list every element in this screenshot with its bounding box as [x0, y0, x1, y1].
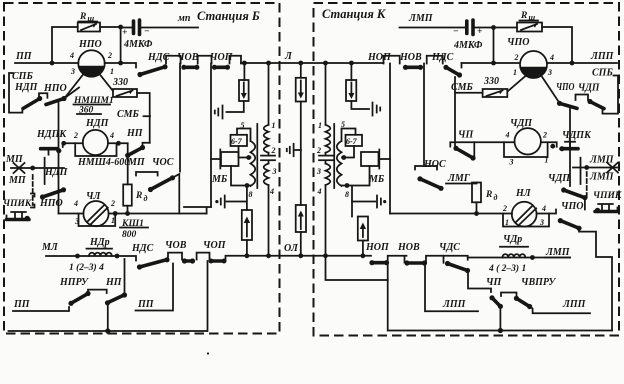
contact ChP bottom movable — [489, 295, 503, 309]
svg-text:НДП: НДП — [14, 82, 39, 93]
node mid arrester — [298, 61, 303, 66]
wire LMP to cap — [400, 27, 466, 29]
contact NDP movable — [23, 96, 42, 109]
wire ChDP lower to rack — [584, 198, 586, 210]
svg-text:1: 1 — [110, 67, 114, 76]
wire contact group down right — [569, 108, 571, 148]
svg-text:ЧВПРУ: ЧВПРУ — [521, 277, 556, 288]
svg-text:4: 4 — [69, 51, 74, 60]
arrester mid top — [296, 78, 306, 102]
svg-text:2: 2 — [316, 146, 321, 155]
svg-text:6-7: 6-7 — [231, 137, 243, 146]
svg-text:2: 2 — [514, 53, 519, 62]
svg-text:330: 330 — [112, 77, 128, 88]
relay ChDP coil — [515, 128, 541, 154]
wire MP with cross — [11, 163, 64, 173]
node MP wire — [30, 166, 35, 171]
svg-text:ЧОП: ЧОП — [203, 240, 227, 251]
svg-text:2: 2 — [110, 199, 115, 208]
svg-text:1: 1 — [272, 121, 276, 130]
wire NOS drop — [423, 64, 425, 167]
svg-text:ЧДП: ЧДП — [578, 83, 601, 94]
svg-text:ЧПИК: ЧПИК — [3, 199, 32, 209]
svg-text:НМШ4-600: НМШ4-600 — [77, 157, 129, 168]
node Rd rack — [125, 211, 130, 216]
contact ChPO rack movable — [558, 218, 582, 231]
tap 5 K wire — [342, 129, 356, 142]
contact NOP bar — [369, 260, 389, 265]
svg-text:2: 2 — [73, 131, 78, 140]
transformer K line winding — [326, 63, 331, 256]
svg-text:ЛМП: ЛМП — [545, 247, 571, 258]
box 6-7 — [231, 135, 248, 146]
svg-text:НДПК: НДПК — [36, 129, 67, 140]
label LMP terminal — [545, 247, 571, 258]
wire bus right of relay — [105, 63, 136, 68]
wire ChOS to rack — [173, 174, 180, 214]
wire LMP with cross — [573, 163, 619, 173]
svg-text:800: 800 — [122, 230, 137, 240]
wire ground to bottom arrester — [227, 186, 247, 211]
svg-text:3: 3 — [70, 67, 75, 76]
node 6-7 K tap — [341, 155, 346, 160]
svg-text:R: R — [520, 11, 527, 21]
box 6-7 K — [346, 135, 363, 146]
contact ChDP fixed bracket — [576, 95, 589, 101]
wire MB K to winding bottom — [342, 166, 370, 217]
label LMG terminal — [446, 173, 472, 184]
contact ChOP bottom bar — [209, 259, 227, 264]
node NDr right — [115, 254, 120, 259]
relay ChL coil — [83, 201, 108, 226]
terminal SMB tick — [144, 115, 151, 117]
wire PP1 — [13, 307, 69, 311]
inductor ChDr — [500, 247, 528, 258]
wire ChPO out to bus — [579, 228, 612, 330]
svg-text:2: 2 — [271, 146, 276, 155]
leg NPO to 330 — [100, 74, 114, 91]
node NDPK — [61, 141, 66, 146]
svg-text:НОВ: НОВ — [397, 242, 420, 253]
svg-text:4: 4 — [541, 204, 546, 213]
svg-text:ЧДП: ЧДП — [510, 118, 533, 129]
svg-text:1 (2–3) 4: 1 (2–3) 4 — [69, 262, 104, 273]
node 6-7 tap — [246, 155, 251, 160]
svg-text:8: 8 — [249, 190, 253, 199]
wire NP to Rd — [127, 143, 129, 184]
rack ChDP right — [541, 142, 557, 147]
label Rd K — [485, 190, 498, 202]
wire ChP to bus — [499, 306, 501, 330]
contact ChDS movable — [445, 261, 470, 273]
wire OL — [226, 256, 372, 261]
ground B top — [215, 106, 223, 119]
node NDP pin4 — [116, 141, 121, 146]
contact ChOP bar — [212, 65, 230, 70]
frame NDP — [75, 143, 116, 156]
wire ML — [46, 256, 136, 261]
leg NPO to contact — [65, 74, 84, 98]
svg-text:ЧП: ЧП — [486, 277, 502, 288]
battery MB K — [361, 152, 379, 166]
svg-text:ЧПО: ЧПО — [561, 201, 583, 212]
contact ChOP bottom step — [197, 253, 210, 260]
svg-text:НЛ: НЛ — [515, 188, 532, 199]
svg-text:3: 3 — [316, 167, 321, 176]
transformer K core — [333, 124, 335, 188]
relay NL coil — [512, 202, 537, 227]
contact ChDP lower movable — [561, 187, 587, 200]
svg-text:R: R — [485, 190, 492, 200]
ground mid — [287, 144, 301, 156]
contact ChOP fixed step — [230, 56, 242, 64]
svg-text:4МКФ: 4МКФ — [453, 40, 483, 51]
node R-shunt tap — [50, 61, 55, 66]
rack NDP right — [108, 142, 128, 144]
node OL mid — [298, 253, 303, 258]
svg-text:ПП: ПП — [15, 51, 33, 62]
wire ChDPK down — [569, 149, 571, 186]
svg-text:ЧОС: ЧОС — [152, 157, 174, 168]
transformer B core — [256, 124, 258, 188]
wire MB K link — [379, 158, 390, 160]
node bus ChP — [498, 328, 503, 333]
contact ChOS movable — [148, 175, 175, 192]
rack right end riser — [184, 207, 211, 214]
svg-text:ОЛ: ОЛ — [284, 243, 299, 254]
contact NDS movable — [137, 64, 167, 77]
node winding K bottom — [345, 183, 350, 188]
wire chain drop to NL rack — [389, 64, 391, 214]
svg-text:НПО: НПО — [43, 83, 67, 94]
node bus NP — [105, 328, 110, 333]
svg-text:МБ: МБ — [368, 174, 385, 185]
resistor Rd K — [472, 183, 481, 203]
svg-text:4: 4 — [269, 187, 274, 196]
wire LMG to Rd — [472, 183, 477, 184]
tap 5 wire — [237, 129, 251, 142]
svg-text:ЛПП: ЛПП — [442, 299, 467, 310]
relay NPO polarized — [78, 50, 104, 76]
svg-text:ЧОВ: ЧОВ — [165, 240, 187, 251]
rack ChL — [59, 213, 207, 215]
wire mid to OL — [300, 232, 302, 256]
wire NDr to NP contact — [124, 259, 126, 295]
contact NDS bottom movable — [137, 257, 170, 269]
svg-text:СМБ: СМБ — [117, 109, 140, 120]
node OL transformer B — [266, 253, 271, 258]
svg-text:2: 2 — [502, 204, 507, 213]
frame ChDP — [504, 142, 548, 157]
relay ChL type label — [120, 219, 148, 240]
svg-text:4 ( 2–3) 1: 4 ( 2–3) 1 — [488, 263, 526, 274]
svg-text:ЧПО: ЧПО — [507, 37, 529, 48]
transformer K local winding — [337, 141, 342, 186]
frame NL — [503, 214, 549, 227]
contact NDS fixed step — [166, 56, 181, 64]
wire ChDr feed — [468, 257, 570, 259]
wire MB to winding bottom — [231, 166, 251, 186]
svg-text:4: 4 — [317, 187, 322, 196]
relay ChPO polarized — [520, 51, 547, 78]
contact NOV fixed step — [426, 256, 444, 263]
node transformer K line — [323, 61, 328, 66]
wire ChDS down — [468, 271, 492, 293]
contact NOS bracket — [415, 166, 437, 170]
resistor Rd — [123, 184, 132, 205]
jack ChPIK right — [595, 204, 618, 213]
resistor Rsh K — [517, 23, 542, 32]
wire Rd K to rack — [476, 202, 478, 213]
wire to Rsh — [52, 27, 78, 63]
svg-text:3: 3 — [272, 167, 277, 176]
contact ChOV bottom bar — [182, 258, 195, 263]
arrester B top — [239, 80, 249, 101]
svg-text:2: 2 — [107, 51, 112, 60]
svg-text:1: 1 — [513, 68, 517, 77]
node OL left arrester — [245, 253, 250, 258]
contact NOP fixed step — [384, 56, 400, 64]
svg-text:ЧП: ЧП — [458, 130, 474, 141]
contact NOV fixed step — [427, 56, 443, 64]
node OL right arrester — [361, 253, 366, 258]
rack ChDP left — [450, 142, 514, 146]
node right arrester — [349, 61, 354, 66]
wire ChDS step up — [444, 256, 468, 260]
svg-text:НП: НП — [105, 277, 123, 288]
svg-text:4МКФ: 4МКФ — [123, 39, 153, 50]
ground K top — [373, 103, 381, 116]
node winding bottom — [245, 183, 250, 188]
contact ChP movable — [453, 146, 475, 161]
contact ChOV bar — [181, 65, 199, 70]
station K dashed border — [314, 3, 620, 336]
arrester K bottom — [358, 217, 368, 241]
wire bus into ChPO — [462, 62, 521, 64]
relay NDP resistance label — [77, 106, 101, 116]
svg-text:МБ: МБ — [211, 174, 228, 185]
svg-text:ЛПП: ЛПП — [562, 299, 587, 310]
plunger bar ChDPK — [580, 158, 582, 184]
node LPP — [570, 61, 575, 66]
ground B bottom — [215, 196, 224, 208]
svg-text:R: R — [135, 191, 142, 201]
contact ChPO movable — [557, 101, 577, 109]
wire Rsh K to LPP — [542, 27, 572, 63]
svg-text:МП: МП — [8, 175, 27, 186]
bus bottom K — [389, 330, 613, 332]
wire MB drop — [210, 64, 212, 208]
node ChPO bus — [491, 61, 496, 66]
contact NOV bottom bar — [404, 260, 427, 265]
relay NDP coil — [83, 130, 108, 155]
inductor NDr — [87, 249, 113, 256]
speck — [207, 352, 209, 354]
node ChDr right — [530, 255, 535, 260]
svg-text:4: 4 — [549, 53, 554, 62]
svg-text:Станция К: Станция К — [322, 7, 387, 21]
svg-text:4: 4 — [73, 199, 78, 208]
terminal SPB bracket — [9, 73, 22, 113]
wire transformer K to bus — [326, 256, 388, 331]
label Rsh K — [520, 11, 539, 22]
wire NDS K tick — [461, 63, 463, 68]
wire node down ChPO — [493, 28, 495, 64]
svg-text:НПО: НПО — [39, 198, 63, 209]
wire Rsh to cap node — [100, 26, 121, 28]
wire 6-7 K to winding — [342, 146, 354, 158]
svg-text:2: 2 — [542, 131, 547, 140]
resistor 330 K — [483, 89, 508, 97]
arrester mid bottom — [296, 205, 306, 232]
label Rsh — [79, 12, 98, 23]
node cap junction — [118, 25, 123, 30]
station B dashed border — [4, 3, 280, 334]
wire arrester B top — [227, 63, 245, 112]
wire 330 to SMB line — [137, 93, 150, 143]
svg-text:НПО: НПО — [78, 39, 102, 50]
wire NOV drop to LPP mid — [425, 263, 478, 311]
contact ChOV fixed step — [198, 56, 212, 64]
node NDr left — [75, 254, 80, 259]
node Rd K — [474, 211, 479, 216]
svg-text:ЧДПК: ЧДПК — [562, 130, 592, 141]
contact NP upper bracket — [143, 143, 150, 148]
contact NPO lower movable — [40, 187, 66, 199]
svg-text:НОП: НОП — [367, 52, 392, 63]
svg-text:ПП: ПП — [137, 299, 155, 310]
wire ChP to rack — [473, 142, 474, 158]
wire LPP — [547, 62, 617, 64]
svg-text:8: 8 — [345, 190, 349, 199]
svg-text:3: 3 — [509, 158, 514, 167]
wire ChOP to bus — [207, 261, 209, 331]
capacitor 4mkf left — [121, 27, 132, 29]
relay NDP type label — [73, 96, 114, 106]
transformer B local winding — [251, 141, 256, 186]
wire ChOV to PP2 — [136, 264, 174, 311]
svg-text:НОВ: НОВ — [399, 52, 422, 63]
contact NPO movable — [46, 96, 67, 105]
svg-text:СМБ: СМБ — [451, 82, 474, 93]
svg-text:НДП: НДП — [85, 118, 110, 129]
svg-text:НОП: НОП — [365, 242, 390, 253]
contact NP movable — [105, 292, 127, 305]
wire arrester K top — [351, 63, 369, 109]
svg-text:Станция Б: Станция Б — [197, 9, 260, 23]
svg-text:ЛМГ: ЛМГ — [447, 173, 471, 184]
svg-text:Л: Л — [284, 51, 293, 62]
plunger bar NDPK — [44, 158, 46, 184]
wire contact group down to ChL rack — [58, 103, 60, 214]
svg-text:МЛ: МЛ — [41, 242, 59, 253]
svg-text:НДП: НДП — [44, 167, 69, 178]
svg-text:ЧДр: ЧДр — [503, 234, 522, 245]
wire L line to right station — [241, 62, 384, 64]
wire NPO contact to relay leg — [64, 88, 79, 99]
svg-text:ЧДС: ЧДС — [439, 242, 460, 253]
svg-text:ЛМП: ЛМП — [408, 13, 434, 24]
jack ChPIK left — [7, 194, 35, 222]
svg-text:НДС: НДС — [131, 243, 154, 254]
svg-text:3: 3 — [547, 68, 552, 77]
ground K bottom — [377, 196, 386, 208]
node cap K — [491, 25, 496, 30]
transformer B line winding — [264, 63, 269, 256]
mechanical link dashed right — [586, 172, 588, 200]
button NDPK — [41, 148, 62, 155]
wire mid column lower — [300, 150, 302, 205]
svg-text:МП: МП — [127, 157, 146, 168]
wire 6-7 to winding — [239, 146, 251, 158]
wire ground K to bottom arrester — [352, 201, 375, 203]
svg-text:ПП: ПП — [13, 299, 31, 310]
wire cap to Rsh K — [475, 27, 518, 29]
svg-text:ЧДП: ЧДП — [548, 173, 571, 184]
resistor Rsh — [78, 23, 100, 32]
svg-text:НП: НП — [126, 128, 144, 139]
svg-text:НОС: НОС — [423, 159, 446, 170]
node LMP wire — [584, 165, 589, 170]
node ChDP pin2 — [550, 144, 555, 149]
contact ChOS bracket — [136, 172, 158, 176]
node left arrester — [242, 61, 247, 66]
contact NOS movable — [417, 176, 443, 191]
frame ChL — [79, 214, 116, 227]
contact NPRU bracket — [88, 290, 107, 293]
wire cap to MP terminal — [141, 27, 198, 29]
svg-text:−: − — [144, 27, 150, 37]
contact ChOS drop wire — [179, 64, 181, 172]
wire NP to bus — [107, 303, 109, 331]
wire Rd to rack — [127, 206, 129, 214]
button ChDPK — [559, 142, 578, 152]
contact NDP fixed bracket — [39, 93, 47, 98]
contact ChVPRU bracket — [501, 293, 517, 297]
arrester B bottom — [242, 210, 252, 240]
svg-text:ЧПО: ЧПО — [556, 82, 575, 93]
label Rd — [135, 191, 148, 203]
svg-text:д: д — [494, 193, 498, 202]
leg ChPO to 330 — [508, 76, 526, 91]
wire node down to bus — [120, 27, 122, 63]
node on bus — [118, 61, 123, 66]
node transformer B line — [266, 61, 271, 66]
svg-text:ЛПП: ЛПП — [590, 51, 615, 62]
svg-text:330: 330 — [483, 76, 499, 87]
contact NOV bar — [403, 65, 423, 70]
svg-text:R: R — [79, 12, 86, 22]
svg-text:НДр: НДр — [89, 237, 110, 248]
wire PP bus — [15, 62, 78, 64]
contact NOP fixed step — [388, 256, 407, 263]
capacitor 4mkf K — [467, 20, 473, 35]
arrester K top — [346, 80, 356, 101]
svg-text:СПБ: СПБ — [592, 68, 613, 79]
svg-text:+: + — [477, 27, 482, 37]
wire arrester K bottom — [362, 241, 364, 256]
contact NPRU movable — [68, 291, 90, 306]
wire arrester B bottom — [246, 240, 248, 256]
wire mid column upper — [300, 63, 302, 150]
svg-text:ЛМП: ЛМП — [589, 172, 615, 183]
mechanical link dashed — [32, 175, 34, 205]
svg-text:1: 1 — [318, 121, 322, 130]
rack NL — [390, 210, 556, 214]
contact NDS K movable — [443, 65, 462, 78]
svg-text:4: 4 — [109, 131, 114, 140]
svg-text:+: + — [122, 28, 127, 38]
